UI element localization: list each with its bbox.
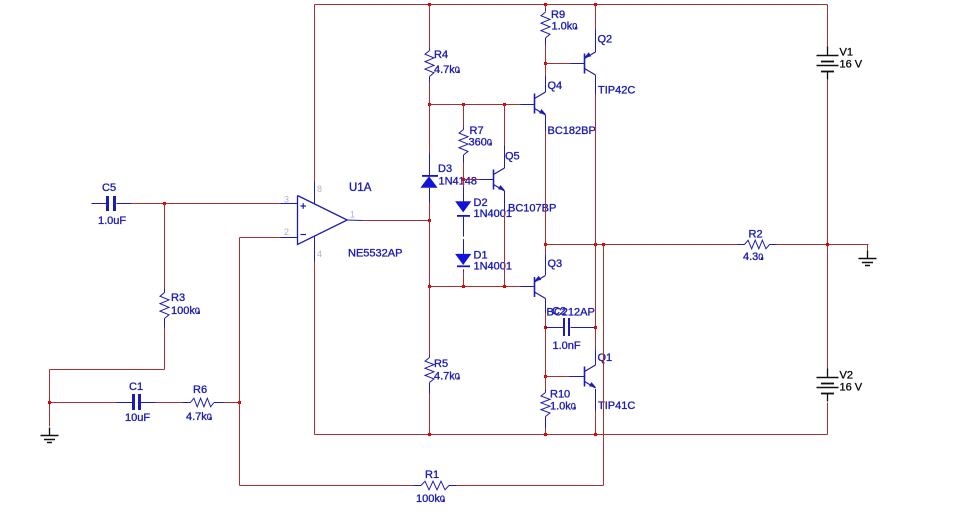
node - feedback takeoff [602, 243, 605, 246]
ground - input ground [49, 428, 51, 436]
wire - C1 to R6 [156, 402, 183, 404]
wire - top power rail [315, 4, 828, 6]
diode D3 1N4148 [429, 154, 431, 177]
transistor Q1 TIP41C [595, 328, 597, 351]
capacitor C5 [92, 203, 107, 205]
wire - mid rail to Q4 base lead [521, 104, 535, 106]
svg-text:100k0: 100k0 [171, 305, 200, 317]
svg-text:3600: 3600 [469, 137, 492, 149]
resistor R3 [164, 289, 166, 293]
capacitor C1 [117, 402, 133, 404]
wire - R7 top feed [463, 105, 465, 128]
transistor Q4 BC182BP [545, 64, 547, 76]
svg-text:Q4: Q4 [548, 80, 563, 92]
svg-text:1.0nF: 1.0nF [553, 340, 581, 352]
svg-text:U1A: U1A [349, 182, 372, 194]
svg-text:3: 3 [284, 195, 289, 205]
wire - Q5 collector feed [504, 105, 506, 146]
svg-text:1N4148: 1N4148 [439, 176, 478, 188]
wire - cap node down to Q1 base tap [545, 328, 547, 377]
svg-text:C5: C5 [102, 182, 116, 194]
ground - output ground [867, 251, 869, 259]
svg-text:2: 2 [284, 227, 289, 237]
svg-text:1: 1 [350, 210, 355, 220]
svg-text:4.7k0: 4.7k0 [434, 371, 460, 383]
node - Q1 base junction [544, 375, 547, 378]
resistor R7 [463, 128, 465, 130]
wire - bias bottom to Q3 base lead [521, 286, 535, 288]
wire - Q2 collector to output node [595, 95, 597, 245]
battery V1 [827, 47, 829, 56]
node - V rail output tap [826, 243, 829, 246]
resistor R2 [738, 244, 745, 246]
node - driver junction [544, 243, 547, 246]
svg-text:D3: D3 [438, 163, 452, 175]
wire - Q5 emitter to bias bottom rail [504, 212, 506, 287]
node - top rail Q2 tap [594, 3, 597, 6]
svg-text:Q2: Q2 [598, 34, 613, 46]
wire - R1 line right [457, 485, 604, 487]
svg-text:10uF: 10uF [125, 412, 150, 424]
svg-text:R4: R4 [434, 49, 448, 61]
node - top rail R9 tap [544, 3, 547, 6]
transistor Q3 BC212AP [545, 245, 547, 255]
wire - R1 line left [240, 485, 414, 487]
svg-text:Q5: Q5 [505, 151, 520, 163]
wire - R5 to bottom rail [429, 394, 431, 435]
resistor R4 [429, 49, 431, 51]
svg-text:BC182BP: BC182BP [548, 125, 596, 137]
node - feedback junction [238, 401, 241, 404]
wire - bias top rail [430, 104, 521, 106]
wire - R3 column top [164, 204, 166, 289]
wire - bias bottom rail [430, 286, 521, 288]
wire - R4 to bias rail [429, 82, 431, 105]
node - output node [594, 243, 597, 246]
wire - C5 to op-amp noninverting input [132, 203, 281, 205]
wire - ground to C1 [50, 402, 117, 404]
wire - Q1 emitter to bottom rail [595, 411, 597, 435]
wire - feedback column [603, 245, 605, 486]
wire - output node to Q1 collector [595, 245, 597, 328]
wire - R2 to ground branch [777, 244, 869, 246]
node - bias rail left [428, 103, 431, 106]
wire - V1 top feed [827, 5, 829, 47]
svg-text:1N4001: 1N4001 [474, 208, 513, 220]
resistor R9 [545, 5, 547, 9]
wire - output ground drop [867, 245, 869, 254]
svg-text:Q1: Q1 [598, 352, 613, 364]
node - bias bottom rail left [428, 285, 431, 288]
node - bias bottom rail D1 [462, 285, 465, 288]
svg-text:TIP42C: TIP42C [598, 85, 635, 97]
svg-text:16 V: 16 V [840, 382, 863, 394]
node - Q2 base junction [544, 62, 547, 65]
resistor R6 [183, 402, 191, 404]
node - cap left junction [544, 326, 547, 329]
svg-text:1N4001: 1N4001 [474, 260, 513, 272]
wire - between output line and V2 [827, 245, 829, 370]
svg-text:4.30: 4.30 [743, 251, 763, 263]
wire - D1 to bias bottom rail [463, 272, 465, 287]
resistor R10 [545, 377, 547, 390]
wire - D3 column upper [429, 105, 431, 154]
node - bottom rail R5 [428, 433, 431, 436]
svg-text:V1: V1 [840, 47, 853, 59]
wire - R10 to bottom rail [545, 429, 547, 435]
node - top rail R4 tap [428, 3, 431, 6]
wire - R3 bottom horizontal [50, 369, 165, 371]
wire - output line to R2 [546, 244, 738, 246]
svg-text:4.7k0: 4.7k0 [434, 64, 460, 76]
svg-text:R5: R5 [434, 358, 448, 370]
wire - feedback column to inverting input [239, 238, 241, 486]
svg-text:1.0k0: 1.0k0 [552, 21, 578, 33]
node - output to bias chain [428, 219, 431, 222]
diode D2 1N4001 [456, 202, 471, 212]
node - C1/ground junction [48, 401, 51, 404]
svg-text:Q3: Q3 [548, 258, 563, 270]
wire - Q2 base wire [546, 63, 572, 65]
svg-text:4.7k0: 4.7k0 [186, 411, 212, 423]
svg-text:8: 8 [317, 184, 322, 194]
transistor Q2 TIP42C [595, 5, 597, 30]
svg-text:R10: R10 [550, 389, 570, 401]
svg-text:4: 4 [317, 249, 322, 259]
node - bias rail R7 tap [462, 103, 465, 106]
transistor Q5 BC107BP [504, 146, 506, 169]
svg-text:100k0: 100k0 [416, 493, 445, 505]
diode D1 1N4001 [463, 239, 465, 255]
battery V2 [827, 369, 829, 378]
node - bottom rail Q1 [594, 433, 597, 436]
svg-text:V2: V2 [840, 370, 853, 382]
node - bottom rail R10 [544, 433, 547, 436]
node - input/R3 junction [163, 202, 166, 205]
wire - Q4 emitter down to output junction [545, 132, 547, 245]
wire - between V1 and output line [827, 80, 829, 245]
svg-text:R6: R6 [193, 384, 207, 396]
resistor R1 [414, 485, 422, 487]
wire - R7 to Q5 base node [463, 163, 465, 188]
capacitor C2 1.0nF [546, 327, 564, 329]
svg-text:R1: R1 [425, 469, 439, 481]
node - Q5 base junction [462, 178, 465, 181]
wire - D3 to output node [429, 203, 431, 287]
wire - Q3 collector to cap node [545, 313, 547, 328]
svg-text:R9: R9 [551, 9, 565, 21]
svg-text:16 V: 16 V [840, 59, 863, 71]
node - bias rail Q5 collector tap [503, 103, 506, 106]
wire - bottom rail [315, 434, 828, 436]
wire - Q1 base wire [546, 376, 570, 378]
svg-text:1.0uF: 1.0uF [98, 215, 126, 227]
wire - op-amp output [363, 220, 430, 222]
wire - R5 top feed [429, 287, 431, 355]
svg-text:C1: C1 [129, 381, 143, 393]
resistor R5 [429, 355, 431, 358]
svg-text:C2: C2 [552, 306, 566, 318]
wire - V2 to bottom rail [827, 403, 829, 435]
svg-text:NE5532AP: NE5532AP [348, 248, 402, 260]
wire - R3 bottom to ground branch [164, 328, 166, 370]
op-amp U1A [281, 203, 298, 205]
svg-text:R7: R7 [470, 125, 484, 137]
wire - op-amp pin 4 down to bottom rail [314, 262, 316, 435]
node - bias bottom rail Q5 [503, 285, 506, 288]
svg-text:1.0k0: 1.0k0 [550, 401, 576, 413]
wire - R9 to Q2 base node [545, 46, 547, 64]
wire - inverting input horizontal [240, 237, 281, 239]
wire - R6 to feedback node [224, 402, 240, 404]
wire - R4 top feed [429, 5, 431, 49]
wire - left rail down to op-amp pin 8 [314, 5, 316, 182]
wire - Q5 base wire [464, 179, 480, 181]
wire - ground column [49, 370, 51, 427]
node - cap right junction [594, 326, 597, 329]
svg-text:BC107BP: BC107BP [508, 203, 556, 215]
svg-text:R2: R2 [749, 229, 763, 241]
svg-text:R3: R3 [171, 292, 185, 304]
